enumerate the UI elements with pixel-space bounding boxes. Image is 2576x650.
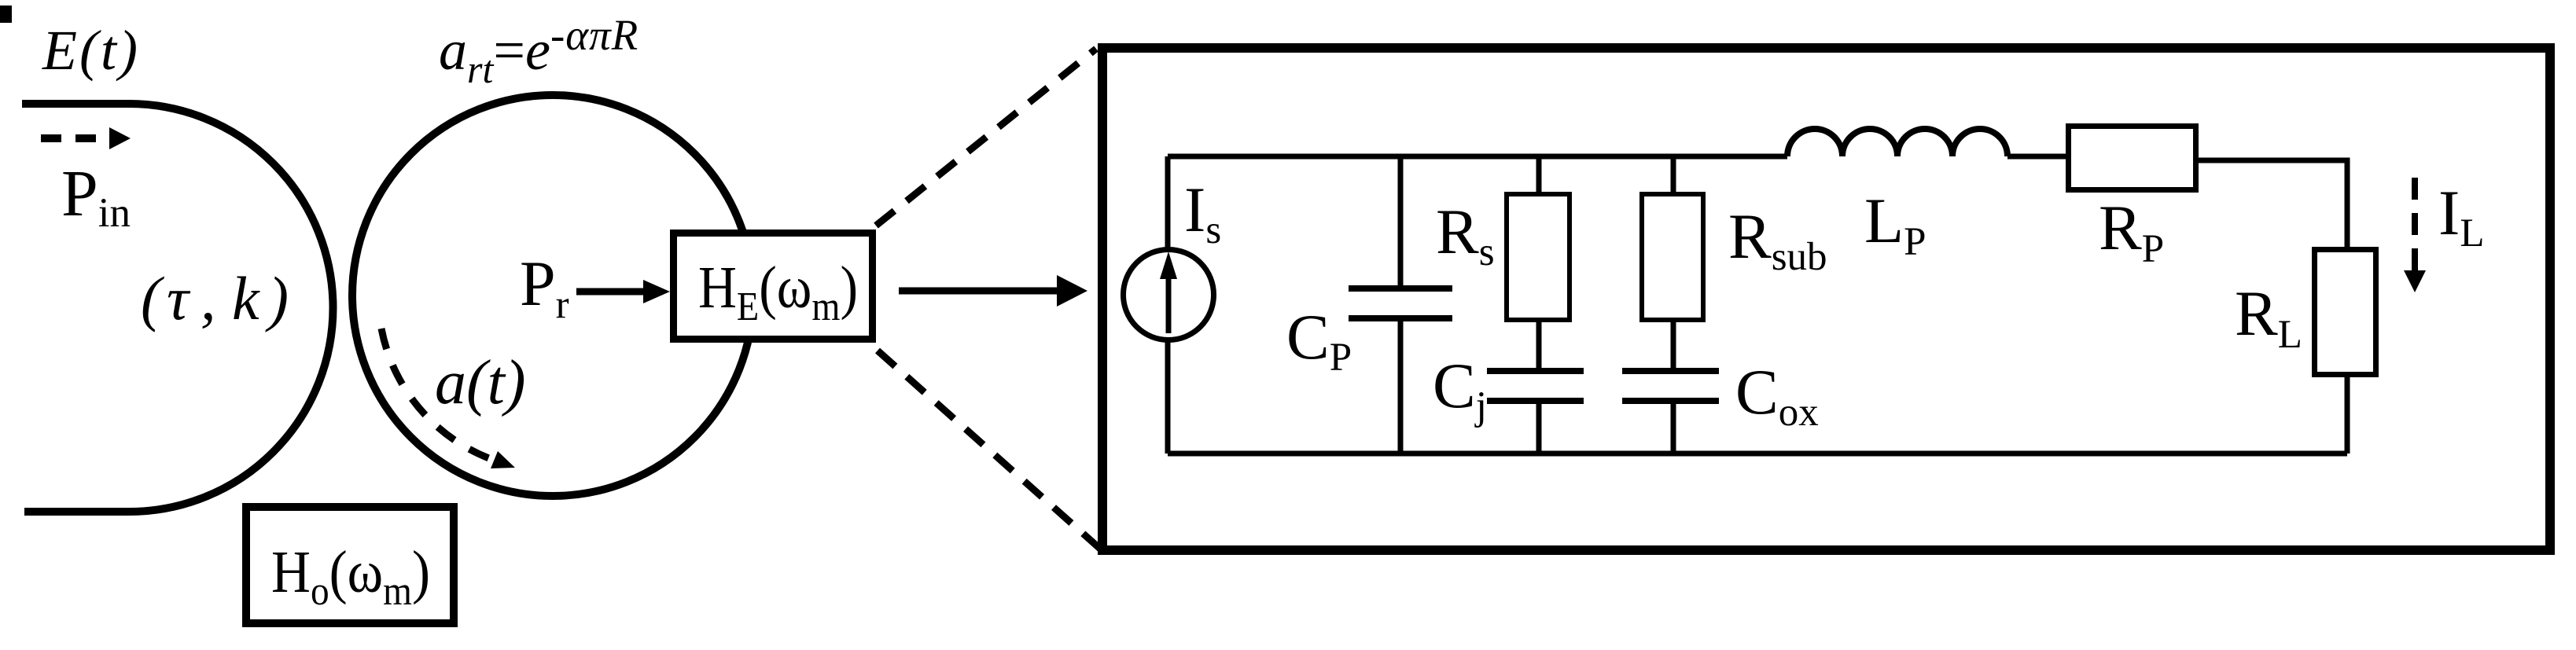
resistor RL [2315,250,2376,375]
wire RL bottom [2345,375,2350,454]
capacitor CP [1349,285,1452,292]
dashed zoom line bottom [878,351,1101,549]
wire Cox bottom [1671,404,1676,454]
resistor Rsub [1642,194,1703,320]
dashed zoom line top [876,49,1096,226]
wire source branch bottom [1165,340,1171,454]
corner mark [0,6,12,23]
capacitor Cox [1622,368,1719,374]
wire Rsub to Cox [1671,320,1676,368]
svg-text:a(t): a(t) [435,348,526,417]
inductor LP [1787,129,2007,156]
a(t) dashed arc arrow [381,329,493,460]
capacitor CP wire top [1398,156,1404,286]
resistor Rs wire top [1536,156,1542,194]
svg-text:E(t): E(t) [42,19,140,82]
current source Is [1124,250,1214,340]
wire top rail [1168,154,1787,160]
wire Rs to Cj [1536,320,1542,368]
IL dashed arrow [2412,178,2418,270]
bus waveguide [22,104,333,512]
zoom arrow [899,288,1059,295]
resistor Rsub wire top [1671,156,1676,194]
wire RP to corner [2199,160,2347,249]
capacitor CP wire bottom [1398,321,1404,454]
Pr arrow [576,288,646,296]
ring resonator [352,95,753,496]
wire inductor to RP [2007,154,2068,160]
wire source branch top [1165,156,1171,250]
wire Cj bottom [1536,404,1542,454]
resistor Rs [1507,194,1570,320]
box Ho [246,507,454,623]
box HE [674,233,873,340]
capacitor Cj [1487,368,1584,374]
equivalent circuit box [1102,48,2550,550]
wire bottom rail [1168,451,2347,457]
resistor RP [2069,127,2196,190]
Pin dashed arrow [41,134,97,142]
